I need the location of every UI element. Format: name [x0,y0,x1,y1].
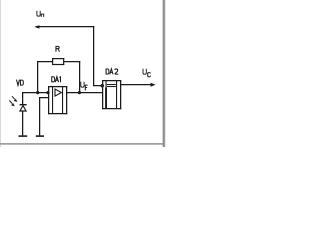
label Un [37,11,40,17]
ground symbol under DA1 input [36,135,44,137]
wire output Uc [121,84,151,85]
wire feedback top-right segment [64,61,80,62]
op-amp DA1 box [48,86,67,87]
node feedback/input junction dot [36,91,39,94]
photodiode VD triangle [20,106,26,111]
label UF [81,82,84,88]
comparator DA2 equals mark lower [107,86,116,87]
label VD [17,80,20,86]
label Uc [143,69,146,75]
photodiode VD bottom lead [22,111,23,135]
label R [56,46,60,51]
bottom page border line [0,143,163,144]
resistor R [52,58,64,59]
right page border band [162,0,165,147]
wire Un horizontal rail [36,26,94,27]
node Un supply terminal arrow [34,25,39,28]
light arrow 2 [9,101,12,104]
node feedback/output junction dot [78,91,81,94]
photodiode VD cathode bar [20,104,27,105]
wire Un vertical drop [93,26,94,85]
wire DA1 lower input [39,97,48,98]
comparator DA2 inner line left upper [106,80,107,88]
comparator DA2 inner line right [116,80,117,108]
comparator DA2 equals mark upper [107,84,116,85]
comparator DA2 inner line left thick lower [105,88,107,109]
op-amp DA1 inner line right [62,86,63,114]
wire DA1 lower input ground leg [39,97,40,135]
ground symbol under photodiode [19,135,28,137]
label DA1 [52,77,55,82]
left page border [0,0,1,147]
node DA1 input dot [46,91,49,94]
wire feedback top-left segment [37,61,53,62]
comparator DA2 box [102,80,121,81]
wire DA1 output to DA2 [67,92,102,93]
photodiode VD top lead [22,92,23,105]
wire photodiode node to DA1 input [22,92,48,93]
node output arrow head [151,83,156,87]
op-amp DA1 inner line left [52,86,53,114]
wire feedback left leg [37,61,38,93]
label DA2 [106,69,109,74]
wire Un jog to DA2 upper input [93,85,102,86]
node junction dot at DA2 upper input [101,84,104,87]
wire feedback right leg [79,61,80,93]
op-amp DA1 amplifier triangle [55,89,61,96]
light arrow 1 [12,96,15,99]
